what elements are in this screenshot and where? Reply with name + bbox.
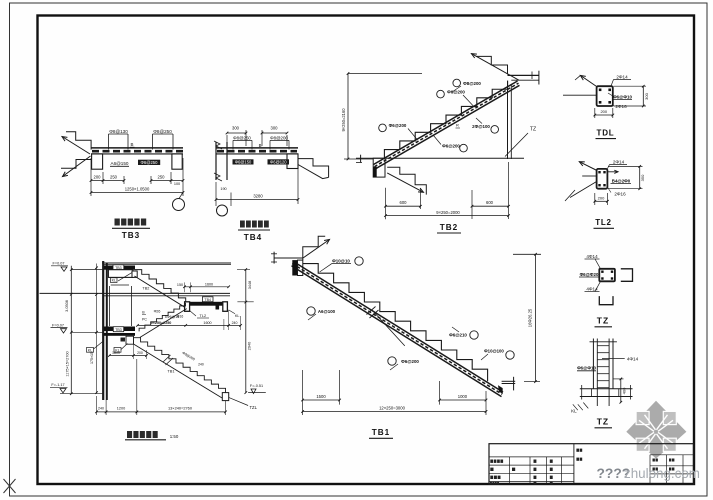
TB2 waist slab band (374, 81, 518, 165)
svg-text:A6@150: A6@150 (111, 161, 129, 166)
svg-text:240: 240 (232, 321, 238, 325)
section KL label mid (114, 348, 121, 353)
section title (127, 431, 132, 438)
TB4 left wall (215, 142, 217, 180)
svg-text:200: 200 (600, 109, 607, 114)
corner cut mark X (4, 479, 16, 493)
svg-text:5Φ6@16: 5Φ6@16 (165, 315, 180, 319)
svg-text:Φ6@200: Φ6@200 (447, 89, 465, 94)
TL2 break line h (582, 175, 596, 177)
section opening lines (108, 286, 110, 326)
svg-text:250: 250 (110, 175, 118, 180)
svg-text:Φ6@150: Φ6@150 (235, 160, 252, 165)
svg-text:350: 350 (640, 174, 645, 181)
section lower small dims (109, 355, 146, 357)
TB2 ground line (356, 157, 524, 159)
svg-text:2940: 2940 (248, 342, 252, 350)
svg-text:KL: KL (571, 409, 577, 414)
title block left texts (490, 460, 493, 463)
TZ column verticals (592, 339, 594, 389)
section footing (222, 393, 228, 401)
TDL corner rebar dots (599, 89, 602, 92)
svg-text:KL: KL (112, 279, 116, 283)
TB4 stair break soffit (298, 165, 329, 179)
TL2 bottom dim (595, 200, 608, 202)
svg-text:Φ10@100: Φ10@100 (484, 348, 504, 353)
section middle flight (139, 303, 185, 332)
TB1 right dim (535, 254, 537, 381)
TDL break arrow (580, 75, 596, 86)
svg-text:1500: 1500 (316, 394, 326, 399)
svg-text:Φ6@Φ10: Φ6@Φ10 (577, 366, 596, 371)
svg-text:9×250=2160: 9×250=2160 (341, 108, 346, 132)
TZ section outline (599, 269, 615, 282)
TB2 top break line (476, 56, 507, 74)
TB1 top break line (303, 236, 325, 260)
svg-text:TZL: TZL (250, 405, 258, 410)
svg-text:TB1: TB1 (372, 428, 390, 437)
TZ corner rebar dots (601, 271, 603, 273)
svg-text:150: 150 (177, 283, 183, 287)
svg-text:300: 300 (644, 92, 649, 99)
svg-text:3.0508: 3.0508 (65, 300, 69, 312)
svg-text:A6@100: A6@100 (318, 309, 336, 314)
svg-text:F=0.07: F=0.07 (53, 262, 65, 266)
svg-text:12×250=3000: 12×250=3000 (379, 406, 406, 411)
TZ column top tick (590, 341, 617, 343)
section flight TB1 (134, 338, 226, 393)
TB4 slab (216, 147, 298, 149)
TB3 left wall (92, 154, 103, 169)
TB4 bottom dim (216, 199, 298, 201)
TL2 break line diag (570, 182, 597, 198)
TL2 break arrow 1 (579, 162, 597, 171)
TB4 title (240, 221, 245, 228)
svg-text:TB1: TB1 (167, 369, 174, 374)
TB2 left dim line (347, 74, 349, 160)
TB2 steps (384, 81, 507, 159)
TL2 section outline (597, 169, 608, 189)
svg-text:Φ6@Φ20: Φ6@Φ20 (580, 272, 599, 277)
TB4 bottom rebar callout 1 (233, 159, 254, 164)
section left dim chain (70, 266, 72, 394)
svg-text:zhulong.com: zhulong.com (624, 466, 700, 481)
TB2 bottom break arrow (387, 173, 423, 192)
TZ beam hatch (573, 403, 589, 411)
svg-text:4Φ14: 4Φ14 (627, 357, 639, 362)
TL2 right arrow (608, 171, 618, 173)
watermark logo pinwheel (626, 401, 686, 459)
TB1 crossing break (372, 310, 405, 346)
TB4 right beam (287, 154, 298, 169)
svg-text:300: 300 (271, 126, 279, 131)
svg-text:B4@2Φ0: B4@2Φ0 (612, 178, 631, 183)
svg-text:3448: 3448 (248, 281, 252, 289)
svg-text:250: 250 (158, 175, 166, 180)
svg-text:TB2: TB2 (142, 287, 149, 291)
TB3 lower break arrow (63, 156, 91, 177)
svg-text:TZ: TZ (530, 127, 536, 133)
TB1 callout c5 (388, 357, 396, 365)
TB2 top break arrow (471, 54, 519, 81)
section lower mark (121, 338, 126, 342)
TB1 callout c3 (470, 331, 478, 339)
TB2 callout c3 (379, 124, 387, 132)
svg-text:TB3: TB3 (122, 231, 140, 240)
section TB4 landing (186, 302, 223, 306)
section right dim 3448 (245, 270, 247, 393)
TZ stirrup rungs (597, 345, 609, 347)
TB4 axis bubble (217, 205, 228, 216)
title block right sub-table (649, 455, 651, 485)
TB1 top wall block (292, 260, 297, 275)
svg-text:300: 300 (232, 126, 240, 131)
svg-text:Φ6@120: Φ6@120 (270, 160, 287, 165)
section TL1 beam under landing (132, 271, 137, 277)
TB1 top break arrow (303, 240, 330, 259)
svg-text:Φ6@Φ10: Φ6@Φ10 (613, 95, 632, 100)
svg-text:Φ10@10: Φ10@10 (332, 258, 350, 263)
section KL label left2 (87, 348, 94, 353)
svg-text:Φ6@200: Φ6@200 (389, 123, 407, 128)
TB3 right beam (172, 154, 182, 169)
TB1 callout c2 (307, 307, 315, 315)
TZ right small dim (620, 379, 622, 402)
svg-text:Φ8@200: Φ8@200 (270, 135, 288, 140)
svg-text:Φ8@250: Φ8@250 (153, 129, 172, 134)
TB1 top support line (274, 257, 303, 259)
TDL section outline (597, 86, 613, 106)
title block right header texts (576, 449, 579, 452)
TB2 callout c5 (491, 126, 499, 134)
TDL left break line (563, 94, 597, 96)
TB2 bottom dims (385, 188, 387, 219)
TB3 slab (91, 147, 183, 149)
section flight TB2 (134, 270, 185, 303)
svg-text:F=0.07: F=0.07 (52, 323, 64, 327)
svg-text:1200: 1200 (117, 407, 125, 411)
svg-text:TB4: TB4 (244, 233, 262, 242)
svg-text:13×240=2760: 13×240=2760 (168, 406, 193, 411)
TB4 stair break steps (298, 159, 329, 178)
svg-text:Φ6@200: Φ6@200 (401, 359, 419, 364)
svg-text:240: 240 (98, 407, 104, 411)
section top floor slab (102, 262, 231, 264)
svg-text:1175×15=2700: 1175×15=2700 (66, 351, 70, 376)
TB1 bottom foot (502, 380, 516, 382)
TB1 callout c4 (506, 351, 514, 359)
svg-text:2Φ@100: 2Φ@100 (472, 124, 490, 129)
TB2 callout c2 (437, 90, 445, 98)
section TZ column mark (216, 306, 220, 310)
TDL right dim (642, 86, 644, 106)
section KL beam outline (108, 270, 133, 278)
title block outline (489, 444, 694, 485)
svg-text:TZ: TZ (597, 417, 609, 427)
svg-text:TL2: TL2 (595, 218, 612, 227)
section KL label (111, 278, 118, 283)
svg-text:TDL: TDL (597, 129, 615, 138)
svg-text:2Φ14: 2Φ14 (616, 75, 628, 80)
TB2 bottom break steps (387, 167, 426, 194)
TB3 axis line and bubble (179, 193, 183, 199)
svg-text:2Φ16: 2Φ16 (614, 192, 626, 197)
svg-text:TB4: TB4 (204, 298, 211, 302)
TB3 lower break line (61, 160, 91, 169)
svg-text:4Φ14: 4Φ14 (586, 254, 598, 259)
svg-text:2Φ14: 2Φ14 (613, 160, 625, 165)
svg-text:1800: 1800 (112, 351, 120, 355)
svg-text:Φ6@210: Φ6@210 (449, 333, 467, 338)
svg-text:16Φ26.25: 16Φ26.25 (528, 308, 533, 327)
svg-text:200: 200 (598, 196, 605, 201)
section bottom dims (96, 396, 98, 415)
svg-text:TL2: TL2 (200, 314, 207, 318)
svg-text:PC: PC (142, 318, 147, 322)
svg-text:Φ6@200: Φ6@200 (442, 143, 460, 148)
TB3 dim line overall (91, 192, 183, 194)
svg-text:200: 200 (94, 175, 102, 180)
TB1 bottom dims (302, 370, 304, 415)
TB1 steps (303, 264, 488, 382)
svg-text:TB2: TB2 (440, 223, 458, 232)
TB2 waist rebar dashed (375, 83, 519, 167)
svg-text:240: 240 (198, 363, 204, 367)
section beam under lower landing (126, 336, 134, 344)
svg-text:100: 100 (174, 182, 180, 186)
section TZL leader (229, 397, 248, 405)
TB2 callout c4 (460, 144, 468, 152)
TZ beam KL lines (580, 388, 633, 390)
TB1 callout c1 (355, 257, 363, 265)
svg-text:TZ: TZ (597, 316, 609, 326)
svg-text:400: 400 (621, 387, 626, 394)
svg-text:Φ8@200: Φ8@200 (463, 81, 481, 86)
TZ right bracket (621, 269, 633, 282)
TZ bottom bracket (599, 296, 613, 305)
svg-text:600: 600 (486, 200, 494, 205)
section TB3 lower landing (104, 327, 135, 332)
svg-text:175×15: 175×15 (90, 352, 94, 364)
svg-text:TB3: TB3 (115, 328, 122, 332)
TB3 title (115, 219, 120, 226)
section TB3 top landing (104, 266, 135, 270)
TL2 right dim (639, 166, 641, 188)
TB2 column under landing (507, 81, 509, 159)
svg-text:1250×1.0500: 1250×1.0500 (125, 187, 150, 192)
svg-text:9×250=2250: 9×250=2250 (151, 321, 172, 325)
TB3 upper break arrow (62, 137, 90, 155)
TB1 waist slab band (293, 261, 503, 392)
svg-text:1:50: 1:50 (170, 434, 179, 439)
TB2 left support block (373, 158, 385, 177)
title block columns (509, 457, 511, 484)
svg-text:9×250=2000: 9×250=2000 (436, 210, 460, 215)
svg-text:Φ8@250: Φ8@250 (233, 135, 251, 140)
section wall lines (102, 261, 104, 400)
section mid dim (138, 324, 241, 326)
TB2 top landing lines (508, 74, 539, 76)
svg-text:Φ8@130: Φ8@130 (109, 129, 128, 134)
svg-text:KL: KL (235, 314, 240, 318)
TB4 bottom rebar callout 2 (268, 159, 290, 164)
svg-text:1000: 1000 (458, 394, 468, 399)
TB3 dim line row1 (91, 180, 124, 182)
TB2 callout c1 (453, 79, 461, 87)
svg-text:190: 190 (220, 187, 226, 191)
TB1 waist rebar dashed (292, 264, 502, 395)
svg-text:Φ6@250: Φ6@250 (141, 160, 159, 165)
TDL bottom dim (595, 114, 613, 116)
svg-text:1600: 1600 (203, 321, 211, 325)
svg-text:3280: 3280 (253, 194, 263, 199)
TB3 upper break line (66, 132, 91, 150)
TL2 corner rebar dots (598, 171, 600, 173)
svg-text:Φ26: Φ26 (154, 310, 161, 314)
section upper dim (185, 286, 229, 288)
title block rows (489, 456, 574, 458)
TB3 bottom rebar callout 2 (138, 160, 160, 165)
svg-text:F=-0.51: F=-0.51 (250, 384, 263, 388)
TB3 dim extension lines (90, 158, 92, 196)
svg-text:200: 200 (137, 351, 143, 355)
svg-text:F=-1.17: F=-1.17 (51, 383, 64, 387)
svg-text:B: B (130, 142, 133, 147)
svg-text:KL: KL (88, 348, 92, 352)
svg-text:R: R (456, 123, 459, 128)
svg-text:B: B (259, 143, 262, 148)
section mid level line (40, 292, 231, 294)
svg-text:1600: 1600 (205, 282, 213, 286)
svg-text:600: 600 (400, 200, 408, 205)
